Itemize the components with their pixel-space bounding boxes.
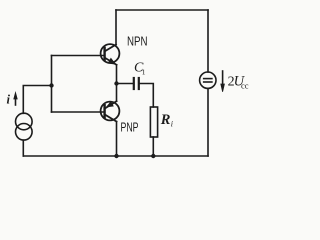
svg-text:PNP: PNP — [121, 121, 139, 135]
voltage source 2Ucc (circle with = bars) — [200, 72, 216, 88]
wire NPN base — [52, 55, 105, 57]
label Ri — [160, 112, 173, 129]
wire bottom rail — [23, 155, 208, 157]
svg-text:1: 1 — [142, 68, 146, 77]
wire top rail from NPN collector to supply — [116, 9, 208, 11]
wire resistor bottom lead — [152, 137, 154, 156]
wire emitter junction vertical (NPN emitter to PNP emitter) — [116, 65, 118, 101]
transistor Q1 NPN — [101, 44, 120, 65]
wire capacitor left lead — [117, 83, 134, 85]
node resistor bottom / bottom rail junction — [151, 154, 155, 158]
svg-text:R: R — [160, 112, 171, 128]
wire PNP base — [52, 111, 105, 113]
label 2Ucc with arrow — [222, 71, 224, 84]
wire base bus vertical — [51, 56, 53, 113]
current source I (two interlocking circles) — [15, 113, 32, 130]
node base-bus / current source junction — [49, 83, 53, 87]
label i with current arrow — [7, 93, 11, 107]
capacitor C1 plates — [133, 78, 135, 89]
wire current source bottom stem — [22, 140, 24, 156]
svg-text:NPN: NPN — [127, 35, 148, 49]
svg-text:i: i — [7, 93, 11, 107]
node PNP collector / bottom rail junction — [114, 154, 118, 158]
wire right vertical supply top — [207, 10, 209, 72]
wire NPN collector vertical — [115, 10, 117, 45]
node emitter output junction — [114, 81, 118, 85]
svg-text:cc: cc — [241, 81, 249, 91]
label C1 — [134, 61, 146, 77]
wire current source top stem — [23, 86, 51, 114]
wire PNP collector vertical to bottom rail — [116, 122, 118, 157]
resistor Ri — [150, 107, 157, 137]
wire capacitor right lead to resistor — [139, 84, 153, 108]
svg-text:i: i — [171, 120, 173, 129]
wire right vertical supply bottom — [207, 88, 209, 156]
transistor Q2 PNP — [101, 101, 120, 121]
